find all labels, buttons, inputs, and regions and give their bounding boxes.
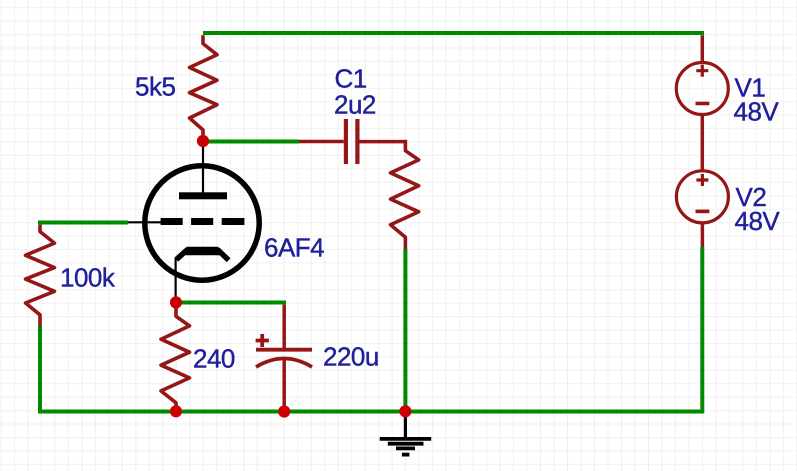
ground symbol [380, 412, 432, 455]
resistor R 240 [161, 304, 190, 411]
svg-text:6AF4: 6AF4 [264, 233, 324, 263]
wire right rail down to bottom [700, 247, 704, 413]
V1 minus [696, 102, 710, 106]
svg-text:240: 240 [193, 344, 235, 374]
svg-text:220u: 220u [323, 342, 379, 372]
triode grid dashes [161, 218, 245, 225]
resistor R 100k [26, 225, 55, 327]
voltage source V1 [676, 63, 728, 115]
capacitor C1 [299, 119, 407, 164]
node plate junction [197, 135, 209, 147]
wire V1 to V2 [701, 115, 705, 170]
triode plate bar [179, 192, 227, 199]
wire grid to left [38, 221, 128, 225]
V2 minus [696, 210, 710, 214]
triode grid lead [124, 221, 162, 223]
wire cathode node to 220u [176, 301, 286, 305]
node rail junction under 240 [170, 405, 182, 417]
wire top rail (plate supply) [203, 31, 704, 35]
resistor (load after C1) [391, 140, 419, 250]
plus mark of 220u [256, 334, 269, 347]
svg-text:48V: 48V [735, 206, 781, 236]
node rail junction under 220u [278, 405, 290, 417]
svg-text:48V: 48V [734, 96, 780, 126]
V1 plus [696, 65, 708, 77]
wire plate node to C1 [203, 140, 299, 144]
svg-text:100k: 100k [60, 263, 116, 293]
capacitor 220u (polarized) [256, 305, 312, 407]
wire 100k to bottom rail [38, 326, 42, 413]
triode cathode lead [175, 258, 177, 302]
resistor R 5k5 [190, 35, 218, 141]
wire load resistor to bottom rail [403, 249, 407, 412]
bottom ground rail [38, 410, 704, 414]
V2 plus [696, 174, 708, 186]
voltage source V2 [676, 171, 728, 223]
triode U1 6AF4 : envelope [145, 166, 259, 280]
node rail junction at ground [399, 405, 411, 417]
svg-text:5k5: 5k5 [135, 71, 175, 101]
wire right rail top (red lead from top corner to V1) [701, 35, 705, 62]
svg-text:2u2: 2u2 [334, 90, 376, 120]
wire V2 bottom lead [701, 223, 705, 248]
triode plate lead [202, 141, 204, 193]
node cathode junction [170, 296, 182, 308]
triode cathode [182, 247, 223, 255]
